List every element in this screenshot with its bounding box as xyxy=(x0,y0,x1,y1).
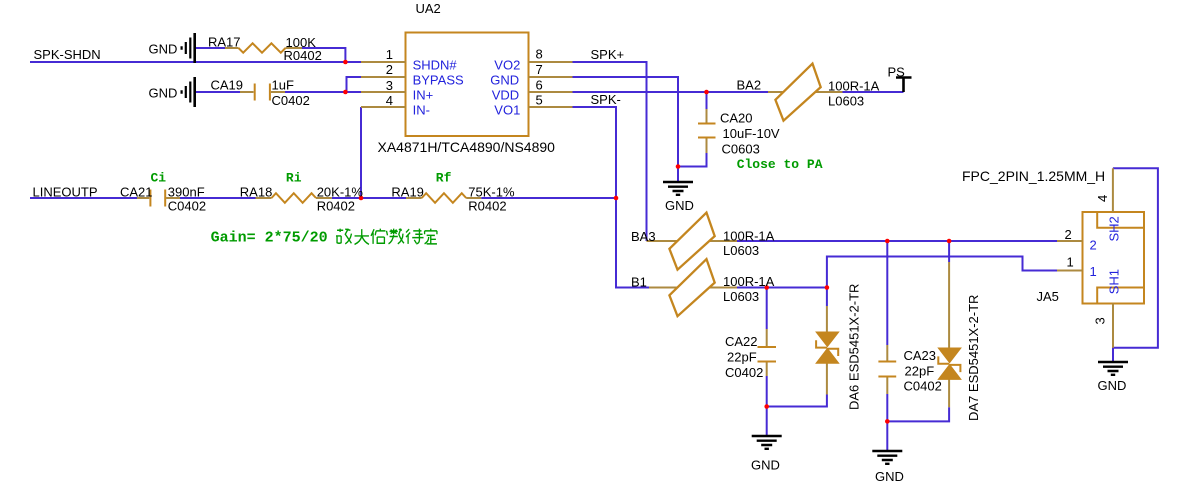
svg-text:CA23: CA23 xyxy=(904,348,937,363)
wire CA23 to DA7 bottom xyxy=(887,407,949,421)
svg-text:Ci: Ci xyxy=(151,171,167,186)
svg-text:2: 2 xyxy=(1065,227,1072,242)
wire CA20 top xyxy=(706,92,708,109)
wire B1 to JA5 pin 1 xyxy=(827,257,1057,288)
svg-text:C0402: C0402 xyxy=(725,365,763,380)
connector JA5 pin 4 stub xyxy=(1112,168,1114,212)
svg-text:PS: PS xyxy=(888,65,906,80)
wire pin 7 to GND3 xyxy=(573,77,679,181)
svg-text:FPC_2PIN_1.25MM_H: FPC_2PIN_1.25MM_H xyxy=(962,168,1105,184)
svg-text:GND: GND xyxy=(1098,378,1127,393)
svg-text:SPK+: SPK+ xyxy=(591,47,625,62)
ground GND2 rotated (CA19) xyxy=(182,77,195,107)
junction node BA3/CA23 xyxy=(885,239,890,244)
svg-text:C0603: C0603 xyxy=(722,142,760,157)
note hanzi 倍 xyxy=(371,229,387,244)
ferrite bead BA3 xyxy=(647,213,738,270)
svg-text:CA21: CA21 xyxy=(120,184,153,199)
wire SPK-SHDN net xyxy=(30,61,361,63)
port PS terminal xyxy=(896,78,912,93)
wire SPK+ pin 8 to BA3 xyxy=(573,62,647,241)
junction node pin3/CA19 xyxy=(343,90,348,95)
wire RA18 to RA19 xyxy=(332,197,406,199)
pin 2 BYPASS xyxy=(361,76,406,78)
wire LINEOUTP net xyxy=(30,197,137,199)
note hanzi 大 xyxy=(355,229,369,244)
pin 4 IN- xyxy=(361,106,406,108)
wire CA22 top xyxy=(766,288,768,330)
svg-text:DA6 ESD5451X-2-TR: DA6 ESD5451X-2-TR xyxy=(847,284,862,410)
svg-text:20K-1%: 20K-1% xyxy=(317,184,364,199)
pin 7 GND xyxy=(529,76,573,78)
svg-text:2: 2 xyxy=(386,62,393,77)
wire JA5 pin4 loop to GND6 xyxy=(1113,168,1158,361)
svg-text:LINEOUTP: LINEOUTP xyxy=(33,184,98,199)
wire BA3 out to JA5 pin 2 xyxy=(737,240,1057,242)
wire pin 2 elbow xyxy=(347,77,362,92)
wire BA2 to PS xyxy=(843,91,904,93)
svg-text:XA4871H/TCA4890/NS4890: XA4871H/TCA4890/NS4890 xyxy=(378,139,556,155)
pin 6 VDD xyxy=(529,91,573,93)
svg-text:VDD: VDD xyxy=(492,88,519,103)
junction node B1/CA22 xyxy=(764,285,769,290)
pin 1 SHDN# xyxy=(361,61,406,63)
pin 8 VO2 xyxy=(529,61,573,63)
junction node CA23/DA7 bottom xyxy=(885,419,890,424)
svg-text:Rf: Rf xyxy=(436,171,452,186)
wire GND2 to CA19 xyxy=(196,91,240,93)
svg-text:SH1: SH1 xyxy=(1107,269,1122,294)
svg-text:GND: GND xyxy=(149,85,178,100)
op-amp U2 body UA2 xyxy=(406,33,529,137)
capacitor CA23 xyxy=(878,345,896,394)
svg-text:4: 4 xyxy=(1095,195,1110,202)
svg-text:RA17: RA17 xyxy=(208,35,241,50)
junction node Rf/SPK- xyxy=(614,196,619,201)
capacitor CA22 xyxy=(758,329,777,376)
wire B1 out xyxy=(737,287,827,289)
svg-text:1: 1 xyxy=(1090,264,1097,279)
junction node IN-/LINEOUTP xyxy=(359,196,364,201)
svg-text:75K-1%: 75K-1% xyxy=(468,184,515,199)
svg-text:JA5: JA5 xyxy=(1037,289,1059,304)
svg-text:BA3: BA3 xyxy=(631,229,656,244)
svg-text:SPK-SHDN: SPK-SHDN xyxy=(34,47,101,62)
TVS diode DA6 xyxy=(816,306,838,395)
wire CA20 bottom to GND3 xyxy=(678,153,707,167)
svg-text:R0402: R0402 xyxy=(468,198,506,213)
wire pin 4 IN- vertical xyxy=(360,107,362,198)
svg-text:1uF: 1uF xyxy=(272,78,294,93)
svg-text:1: 1 xyxy=(386,47,393,62)
wire RA19 out xyxy=(481,197,616,199)
junction node pin1/SPK-SHDN xyxy=(343,60,348,65)
svg-text:6: 6 xyxy=(536,77,543,92)
svg-text:GND: GND xyxy=(149,41,178,56)
pin 3 IN+ xyxy=(361,91,406,93)
svg-text:CA22: CA22 xyxy=(725,334,758,349)
svg-text:7: 7 xyxy=(536,62,543,77)
svg-text:VO1: VO1 xyxy=(494,102,520,117)
connector JA5 pin 3 stub xyxy=(1112,304,1114,348)
note hanzi 放 xyxy=(336,229,351,244)
svg-text:2: 2 xyxy=(1090,238,1097,253)
wire CA23 bottom to GND5 xyxy=(886,394,888,450)
svg-text:100R-1A: 100R-1A xyxy=(828,79,880,94)
ferrite bead B1 xyxy=(649,259,737,316)
connector JA5 pin 1 stub xyxy=(1057,270,1083,272)
wire CA21 to RA18 xyxy=(180,197,256,199)
svg-text:C0402: C0402 xyxy=(272,93,310,108)
wire RA17 out to pin 1 xyxy=(302,48,345,62)
svg-text:22pF: 22pF xyxy=(905,364,935,379)
pin 5 VO1 xyxy=(529,106,573,108)
note hanzi 定 xyxy=(425,229,437,244)
svg-text:GND: GND xyxy=(875,469,904,484)
svg-text:L0603: L0603 xyxy=(723,289,759,304)
svg-text:SHDN#: SHDN# xyxy=(413,57,458,72)
resistor RA17 xyxy=(225,43,302,53)
svg-text:Close to PA: Close to PA xyxy=(737,157,823,172)
ground GND3 (below chip) xyxy=(663,182,693,195)
ground GND5 (CA23/DA7) xyxy=(872,451,902,464)
svg-text:B1: B1 xyxy=(631,275,647,290)
svg-text:BYPASS: BYPASS xyxy=(413,73,464,88)
svg-text:IN-: IN- xyxy=(413,102,430,117)
svg-text:22pF: 22pF xyxy=(727,350,757,365)
wire CA19 out to pin 3 xyxy=(285,91,361,93)
svg-text:CA19: CA19 xyxy=(211,78,244,93)
connector JA5 body xyxy=(1083,212,1145,304)
junction node VDD/CA20 xyxy=(704,90,709,95)
svg-text:BA2: BA2 xyxy=(737,78,762,93)
svg-text:R0402: R0402 xyxy=(317,198,355,213)
svg-text:RA19: RA19 xyxy=(391,184,424,199)
ferrite bead BA2 xyxy=(768,64,843,121)
capacitor CA19 xyxy=(240,84,285,101)
svg-text:SH2: SH2 xyxy=(1107,216,1122,241)
capacitor CA21 xyxy=(137,190,180,207)
svg-text:1: 1 xyxy=(1067,255,1074,270)
note hanzi 数 xyxy=(389,229,404,244)
svg-text:L0603: L0603 xyxy=(828,94,864,109)
svg-text:C0402: C0402 xyxy=(168,198,206,213)
connector JA5 pin 2 stub xyxy=(1057,240,1083,242)
ground GND4 (CA22/DA6) xyxy=(752,436,782,449)
junction node B1/DA6 xyxy=(825,285,830,290)
capacitor CA20 xyxy=(698,109,716,153)
svg-text:100R-1A: 100R-1A xyxy=(723,274,775,289)
svg-text:100R-1A: 100R-1A xyxy=(723,229,775,244)
svg-text:CA20: CA20 xyxy=(720,111,753,126)
wire DA7 top xyxy=(948,241,950,262)
wire GND1 to RA17 xyxy=(196,47,225,49)
resistor RA19 xyxy=(406,193,481,203)
TVS diode DA7 xyxy=(938,262,960,407)
ground GND1 rotated (SPK-SHDN/RA17) xyxy=(182,33,195,63)
wire CA22 to DA6 bottom xyxy=(767,395,827,407)
note hanzi 待 xyxy=(406,229,424,244)
svg-text:IN+: IN+ xyxy=(413,88,434,103)
svg-text:5: 5 xyxy=(536,93,543,108)
svg-text:VO2: VO2 xyxy=(494,57,520,72)
junction node CA20/GND3 xyxy=(676,164,681,169)
wire CA23 top xyxy=(886,241,888,345)
svg-text:L0603: L0603 xyxy=(723,243,759,258)
svg-text:3: 3 xyxy=(386,78,393,93)
wire CA22 bottom to GND4 xyxy=(766,376,768,435)
svg-text:Gain= 2*75/20: Gain= 2*75/20 xyxy=(211,230,328,247)
svg-text:GND: GND xyxy=(490,73,519,88)
svg-text:10uF-10V: 10uF-10V xyxy=(723,126,780,141)
junction node CA22/DA6 bottom xyxy=(764,404,769,409)
resistor RA18 xyxy=(256,193,332,203)
wire DA6 top xyxy=(826,288,828,307)
svg-text:C0402: C0402 xyxy=(904,379,942,394)
wire VDD pin 6 to BA2 xyxy=(573,91,769,93)
svg-text:R0402: R0402 xyxy=(284,48,322,63)
svg-text:Ri: Ri xyxy=(286,171,302,186)
svg-text:RA18: RA18 xyxy=(240,184,273,199)
svg-text:390nF: 390nF xyxy=(168,184,205,199)
wire SPK- pin 5 to feedback and B1 xyxy=(573,107,650,288)
svg-text:SPK-: SPK- xyxy=(591,92,621,107)
svg-text:3: 3 xyxy=(1093,317,1108,324)
svg-text:8: 8 xyxy=(536,47,543,62)
junction node BA3/DA7 xyxy=(947,239,952,244)
svg-text:GND: GND xyxy=(665,198,694,213)
svg-text:GND: GND xyxy=(751,458,780,473)
ground GND6 (JA5) xyxy=(1098,362,1128,375)
svg-text:UA2: UA2 xyxy=(416,1,441,16)
svg-text:4: 4 xyxy=(386,93,393,108)
svg-text:DA7 ESD5451X-2-TR: DA7 ESD5451X-2-TR xyxy=(966,295,981,421)
